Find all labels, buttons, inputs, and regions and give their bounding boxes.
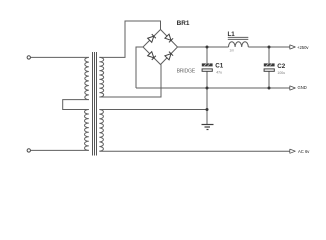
svg-text:+250v: +250v (297, 45, 309, 50)
svg-text:1m: 1m (229, 49, 234, 53)
inductor L1 core lines (228, 36, 249, 38)
wire +rail after L1 (248, 46, 289, 48)
bridge BR1 diamond (143, 30, 178, 65)
wire secondary lower lead to bridge bottom (99, 65, 161, 98)
svg-text:47u: 47u (216, 71, 222, 75)
svg-text:GND: GND (298, 85, 307, 90)
wire primary series jog (63, 100, 89, 110)
capacitor C1 stem (206, 47, 208, 63)
capacitor C2 stem (268, 47, 270, 63)
wire bridge left corner to gnd bus (136, 47, 143, 88)
transformer core (92, 52, 94, 156)
diode D2 top-right edge (165, 34, 173, 42)
capacitor C1 plates (202, 63, 213, 71)
svg-text:BR1: BR1 (177, 20, 190, 27)
svg-text:C2: C2 (277, 63, 285, 70)
diode D3 bottom-left edge (148, 52, 156, 60)
arrow +250v output (290, 45, 296, 49)
wire primary top lead (31, 56, 89, 58)
svg-text:100u: 100u (277, 71, 285, 75)
junction dot C1 top (206, 46, 209, 49)
wire heater top lead to ground stem (99, 109, 207, 111)
junction dot C1 bottom (206, 87, 209, 90)
junction dot C2 bottom (268, 87, 271, 90)
wire secondary top lead to bridge top (99, 21, 160, 57)
diode D1 top-left edge (148, 34, 156, 42)
terminal bottom-left (27, 149, 30, 152)
capacitor C2 plates (264, 63, 275, 71)
svg-text:L1: L1 (228, 31, 236, 38)
arrow AC 6v output (290, 149, 296, 153)
transformer primary winding upper (85, 57, 89, 99)
junction dot C2 top (268, 46, 271, 49)
arrow GND output (290, 86, 296, 90)
transformer secondary winding upper (99, 57, 103, 97)
wire gnd bus (136, 87, 290, 89)
ground symbol bars (202, 125, 214, 130)
transformer secondary winding lower (heater) (99, 110, 103, 152)
wire heater bottom lead to AC output (99, 150, 289, 152)
svg-text:BRIDGE: BRIDGE (177, 68, 196, 74)
svg-text:C1: C1 (215, 63, 223, 70)
terminal top-left (27, 56, 30, 59)
diode D4 bottom-right edge (165, 52, 173, 60)
wire primary bottom lead (31, 149, 89, 151)
junction dot heater/ground (206, 108, 209, 111)
svg-text:AC 6v: AC 6v (298, 149, 310, 154)
transformer primary winding lower (85, 110, 89, 151)
inductor L1 humps (229, 42, 249, 47)
wire bridge right corner to +rail (178, 46, 229, 48)
ground stem (206, 88, 208, 125)
